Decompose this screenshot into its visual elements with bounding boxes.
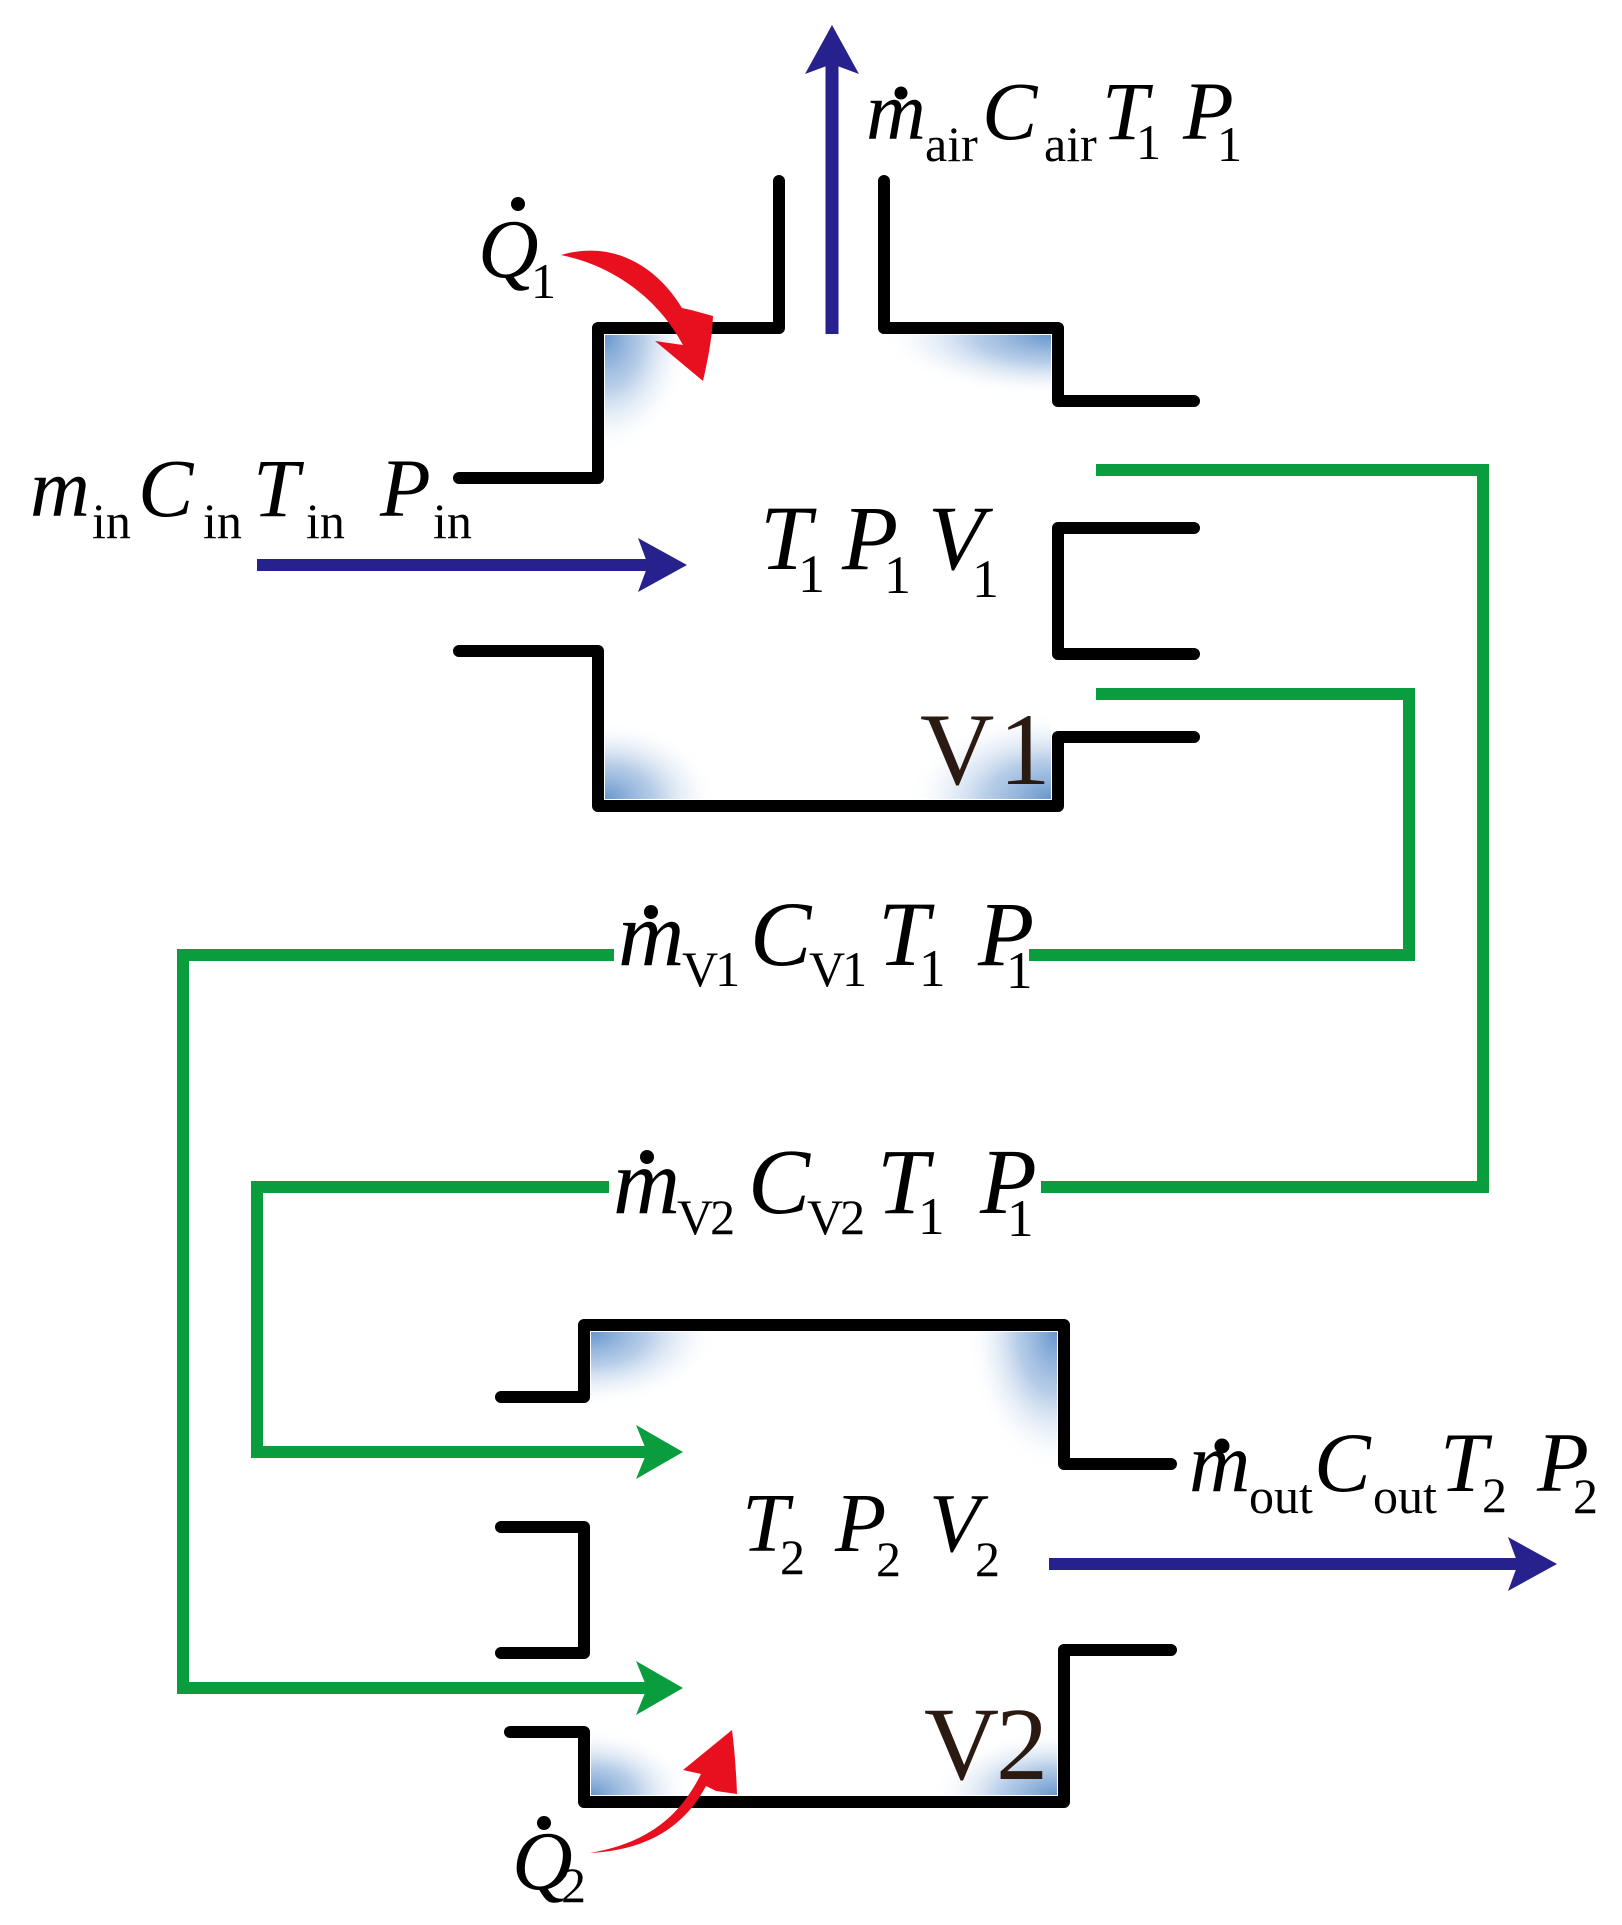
fillet gradient V2 bottom-right	[932, 1731, 1057, 1795]
svg-text:in: in	[433, 493, 472, 549]
blue arrow outlet	[1049, 1558, 1528, 1570]
blue arrow air out (up)	[826, 55, 839, 334]
svg-text:V1: V1	[809, 941, 864, 997]
label T2 P2 V2 inside vessel V2	[742, 1477, 1000, 1587]
svg-text:1: 1	[798, 544, 825, 604]
svg-text:1: 1	[1136, 114, 1161, 170]
red arrow Q2 (heat into V2)	[590, 1730, 737, 1853]
svg-text:air: air	[925, 116, 978, 172]
svg-text:out: out	[1249, 1468, 1313, 1524]
svg-text:C: C	[750, 883, 813, 985]
svg-text:1: 1	[918, 1188, 945, 1246]
svg-text:in: in	[92, 493, 131, 549]
svg-text:1: 1	[1006, 942, 1033, 1000]
svg-text:2: 2	[1573, 1468, 1598, 1524]
green arrowhead into V2 lower	[636, 1661, 683, 1715]
svg-text:1: 1	[884, 545, 911, 605]
svg-text:m: m	[1189, 1416, 1250, 1510]
svg-text:C: C	[982, 65, 1039, 157]
label V1	[920, 693, 1051, 807]
svg-text:m: m	[30, 442, 90, 534]
fillet gradient V1 bottom-left	[605, 721, 717, 799]
svg-text:air: air	[1044, 116, 1097, 172]
svg-text:out: out	[1373, 1468, 1437, 1524]
svg-text:Q: Q	[478, 203, 539, 296]
vessel V1 wall: chimney right, top-right wall, step, stub	[884, 181, 1194, 401]
wire green path B left part	[183, 955, 656, 1688]
fillet gradient V1 bottom-right	[906, 712, 1051, 799]
label m_air C_air T1 P1	[866, 65, 1242, 172]
svg-text:V: V	[920, 693, 994, 807]
vessel V1 wall: left stub, left wall, top wall, chimney left	[459, 181, 779, 478]
svg-text:T: T	[253, 442, 305, 534]
svg-text:1: 1	[999, 693, 1051, 807]
svg-text:2: 2	[561, 1857, 586, 1913]
vessel V1 wall: right C port	[1058, 528, 1194, 654]
label Q2 with dot	[512, 1815, 586, 1913]
svg-text:V1: V1	[682, 941, 737, 997]
svg-text:2: 2	[1482, 1467, 1507, 1523]
wire green path B: V1 lower outlet to V2 lower inlet	[1029, 694, 1409, 955]
svg-text:2: 2	[876, 1531, 901, 1587]
vessel V2 wall: left stub1, top-left corner, top wall, right wall, right stub	[501, 1325, 1171, 1464]
svg-text:m: m	[613, 1131, 680, 1234]
svg-text:C: C	[138, 442, 195, 534]
vessel V1 wall: lower right stub, right wall, bottom, left wall, left stub	[459, 651, 1194, 806]
label T1 P1 V1 inside vessel V1	[760, 487, 999, 609]
fillet gradient V2 top-right	[967, 1332, 1057, 1472]
svg-text:2: 2	[780, 1529, 805, 1585]
fillet gradient V2 bottom-left	[591, 1729, 691, 1795]
label mdot_out C_out T2 P2	[1189, 1416, 1598, 1524]
label mdot_V1 C_V1 T1 P1	[618, 883, 1034, 1000]
label V2	[924, 1687, 1048, 1802]
fillet gradient V1 top-left	[605, 335, 691, 453]
label m_in C_in T_in P_in	[30, 442, 472, 549]
svg-text:1: 1	[972, 549, 999, 609]
svg-text:2: 2	[975, 1531, 1000, 1587]
vessel V2 wall: right lower stub, right wall, bottom, left wall, left stub	[510, 1650, 1171, 1802]
svg-text:in: in	[203, 493, 242, 549]
red arrow Q1 (heat into V1)	[561, 251, 713, 381]
svg-text:m: m	[618, 883, 684, 985]
svg-text:V: V	[924, 1687, 999, 1802]
fillet gradient V2 top-left	[591, 1332, 719, 1407]
wire green path A left part	[257, 1187, 656, 1452]
svg-text:P: P	[379, 442, 431, 534]
svg-text:1: 1	[919, 940, 946, 998]
blue arrow inlet	[257, 559, 658, 571]
svg-text:m: m	[866, 65, 926, 157]
svg-text:1: 1	[1217, 116, 1242, 172]
svg-text:in: in	[306, 493, 345, 549]
svg-text:V2: V2	[677, 1189, 733, 1245]
svg-text:C: C	[748, 1131, 811, 1234]
svg-text:C: C	[1314, 1416, 1372, 1510]
vessel V2 wall: left C port	[501, 1527, 584, 1653]
svg-text:1: 1	[1007, 1190, 1034, 1248]
green arrowhead into V2 upper	[636, 1425, 683, 1479]
svg-text:V2: V2	[807, 1189, 863, 1245]
fillet gradient V1 top-right	[881, 335, 1051, 397]
label mdot_V2 C_V2 T1 P1	[613, 1131, 1037, 1248]
svg-text:2: 2	[996, 1687, 1048, 1802]
svg-text:1: 1	[531, 253, 556, 309]
label Q1 with dot	[478, 197, 556, 309]
wire green path A: V1 upper outlet to V2 upper inlet	[1041, 470, 1483, 1187]
